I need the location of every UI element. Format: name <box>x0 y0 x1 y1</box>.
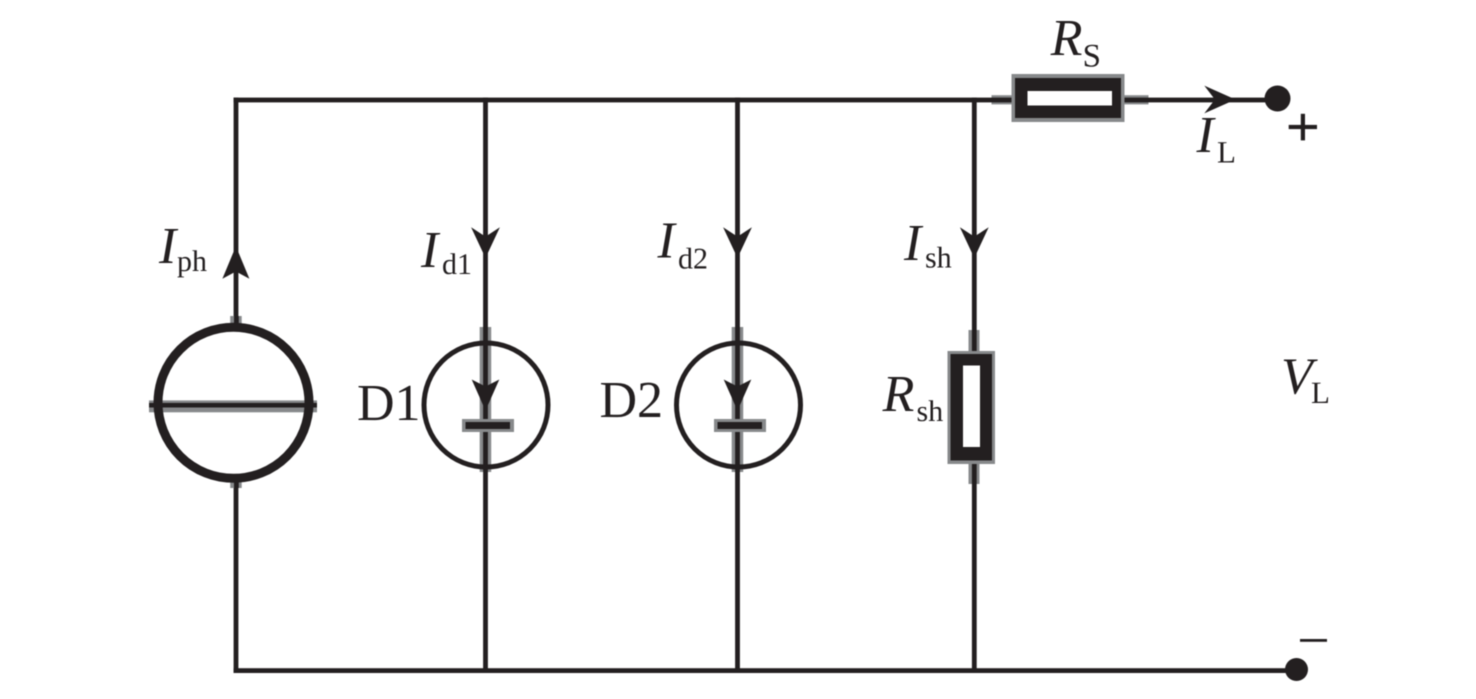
resistor RS <box>992 74 1149 122</box>
wire bottom bus <box>234 668 1297 673</box>
arrow Iph (up) <box>222 246 249 279</box>
node terminal minus (dot) <box>1285 658 1308 681</box>
wire branch Iph upper segment <box>234 98 239 327</box>
diode D2 <box>677 327 801 472</box>
wire branch Rsh <box>972 98 977 673</box>
label VL <box>1284 360 1328 404</box>
label Iph <box>159 229 207 277</box>
label Ish <box>904 226 952 268</box>
wire branch D2 <box>735 98 740 673</box>
current source Iph <box>149 316 317 488</box>
node terminal plus (dot) <box>1265 86 1291 112</box>
arrow Ish (down) <box>960 227 989 258</box>
resistor Rsh <box>948 330 996 484</box>
label Id1 <box>421 233 470 274</box>
label minus sign <box>1300 639 1327 642</box>
label IL <box>1196 118 1234 163</box>
label Id2 <box>657 224 706 269</box>
arrow Id1 (down) <box>471 227 500 258</box>
diode D1 <box>424 327 548 472</box>
wire branch D1 <box>483 98 488 673</box>
arrow IL (right) <box>1204 86 1235 114</box>
label plus sign <box>1289 114 1317 141</box>
wire branch Iph lower segment <box>234 479 239 673</box>
label D2 <box>601 383 660 418</box>
label Rsh <box>882 377 943 421</box>
label RS <box>1050 21 1099 67</box>
label D1 <box>359 386 418 420</box>
wire top bus <box>234 98 1278 103</box>
arrow Id2 (down) <box>723 227 752 258</box>
